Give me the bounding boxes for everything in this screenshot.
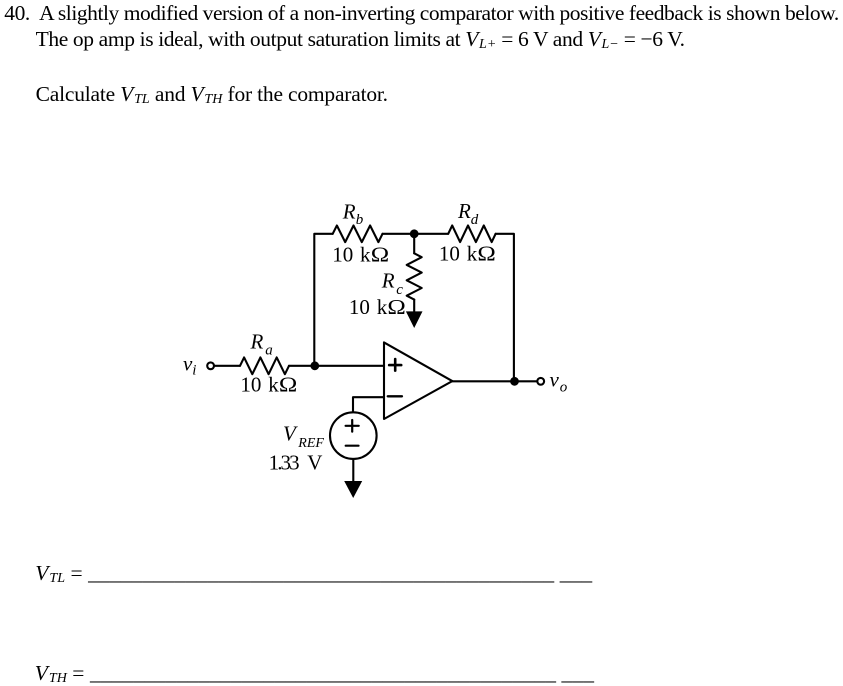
svg-text:Ω: Ω [279,373,297,396]
wire from node B to Rd [414,233,448,235]
svg-text:V: V [283,421,298,445]
svg-text:R: R [342,199,356,223]
svg-text:d: d [471,212,479,228]
node B junction dot [410,229,419,238]
wire from Rd to right rail down to output node [496,234,514,381]
ground symbol under Rc (filled arrow) [406,311,423,328]
wire from Rc to ground [413,300,415,312]
svg-text:a: a [265,343,273,359]
op-amp U1 triangle [384,342,452,419]
node A junction dot [310,361,319,370]
problem statement line 3 [36,84,388,106]
resistor Rd (zigzag) [448,226,495,243]
svg-text:10 k: 10 k [439,242,478,266]
svg-text:i: i [192,363,196,379]
svg-text:Ω: Ω [387,296,405,319]
wire op-amp output to vo terminal [452,380,537,382]
answer line VTH [35,663,594,685]
problem statement line 1 [4,3,838,25]
svg-text:R: R [381,268,395,292]
wire from vi terminal to Ra [214,365,240,367]
svg-text:b: b [356,212,364,228]
wire left rail (node A up to top rail) [314,234,332,366]
output node junction dot [510,377,519,386]
wire from - input to VREF source [353,397,384,412]
voltage source VREF circle [330,412,377,459]
wire from Ra to op-amp + input through node A [289,365,384,367]
svg-text:R: R [250,330,264,354]
svg-text:REF: REF [297,436,324,451]
wire from node B down to Rc [413,234,415,254]
svg-text:10 k: 10 k [349,295,388,319]
VREF - polarity mark [346,445,359,447]
input terminal vi (open circle) [207,362,214,369]
op-amp - input marker [388,395,402,397]
svg-text:10 k: 10 k [240,373,279,397]
svg-text:R: R [457,199,471,223]
svg-text:1.33 V: 1.33 V [269,451,323,475]
svg-text:10 k: 10 k [332,243,371,267]
ground symbol under VREF (filled arrow) [344,481,362,498]
svg-text:v: v [550,368,560,392]
wire from Rb to node B [383,233,415,235]
resistor Ra (zigzag) [240,357,289,374]
answer line VTL [35,563,592,585]
resistor Rb (zigzag) [333,226,383,243]
wire from VREF to ground [352,459,354,482]
svg-text:Ω: Ω [477,242,495,265]
VREF + polarity mark [346,425,359,427]
op-amp + input marker [389,364,401,367]
resistor Rc (vertical zigzag) [407,253,422,299]
output terminal vo (open circle) [537,378,544,385]
svg-text:Ω: Ω [371,243,389,266]
problem statement line 2 [36,29,685,51]
svg-text:o: o [560,379,568,395]
